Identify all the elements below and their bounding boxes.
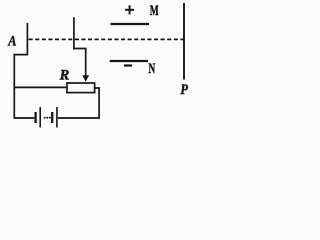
wire: left rail branch to resistor left end bbox=[14, 86, 68, 88]
wire: bottom left to battery bbox=[14, 117, 35, 119]
resistor R body bbox=[67, 83, 95, 93]
minus sign bbox=[124, 64, 132, 66]
deflection plate N bbox=[110, 60, 148, 62]
screen P line bbox=[183, 3, 185, 80]
deflection plate M bbox=[111, 23, 149, 25]
electrode plate right bbox=[73, 17, 75, 49]
wire: battery to right riser bbox=[58, 117, 100, 119]
battery ellipsis dots bbox=[44, 117, 51, 119]
electrode plate left (A) bbox=[26, 23, 28, 55]
svg-text:M: M bbox=[150, 2, 159, 19]
svg-text:A: A bbox=[7, 33, 16, 49]
rheostat slider arrow head bbox=[82, 75, 89, 82]
svg-text:P: P bbox=[180, 81, 188, 97]
battery cell 2 short plate bbox=[51, 112, 53, 123]
svg-text:N: N bbox=[149, 60, 156, 77]
battery cell 2 long plate bbox=[56, 107, 58, 128]
wire: left plate step down to left rail bbox=[14, 55, 28, 119]
battery cell 1 short plate bbox=[34, 112, 36, 123]
wire: right plate step to slider bbox=[73, 49, 85, 77]
beam axis dashed line bbox=[29, 38, 184, 40]
plus sign bbox=[125, 5, 134, 14]
battery cell 1 long plate bbox=[39, 107, 41, 128]
wire: right riser up to resistor right end bbox=[95, 88, 100, 119]
svg-text:R: R bbox=[59, 68, 70, 84]
